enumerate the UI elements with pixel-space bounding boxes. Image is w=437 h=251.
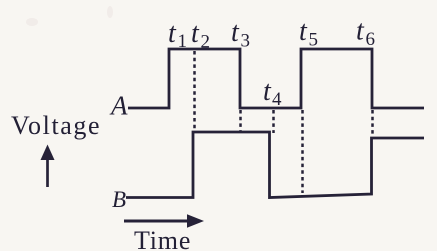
svg-text:1: 1 xyxy=(178,31,188,52)
svg-text:t: t xyxy=(299,16,308,47)
wire waveform A xyxy=(128,49,424,108)
svg-text:3: 3 xyxy=(241,31,251,52)
svg-text:t: t xyxy=(231,17,240,48)
svg-text:2: 2 xyxy=(201,32,211,53)
scan smudge top-left xyxy=(26,18,38,26)
svg-text:t: t xyxy=(263,76,272,107)
svg-text:Time: Time xyxy=(134,226,191,251)
node t6 marker dashed xyxy=(371,110,374,136)
voltage axis arrow xyxy=(41,145,55,188)
svg-text:4: 4 xyxy=(272,89,282,110)
svg-text:6: 6 xyxy=(366,29,376,50)
node t2 marker dashed xyxy=(193,51,196,131)
label t2 xyxy=(191,18,210,53)
node t3 marker dashed xyxy=(239,110,242,131)
label t6 xyxy=(356,16,375,51)
scan smudge top-middle xyxy=(107,6,113,18)
svg-text:Voltage: Voltage xyxy=(11,111,101,140)
node t4 marker dashed xyxy=(272,110,275,133)
svg-text:B: B xyxy=(112,187,126,212)
label t4 xyxy=(263,76,282,110)
wire waveform B xyxy=(126,132,424,198)
svg-text:A: A xyxy=(109,91,128,121)
svg-text:5: 5 xyxy=(309,30,319,51)
label t5 xyxy=(299,16,318,51)
label t3 xyxy=(231,17,250,52)
node t5 marker dashed xyxy=(301,110,304,193)
label t1 xyxy=(168,18,187,52)
svg-text:t: t xyxy=(168,18,177,49)
svg-text:t: t xyxy=(356,16,365,47)
svg-text:t: t xyxy=(191,18,200,49)
time axis arrow xyxy=(124,214,204,228)
